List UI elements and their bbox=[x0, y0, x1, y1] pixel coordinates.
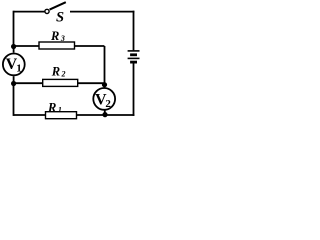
svg-text:R: R bbox=[51, 64, 60, 78]
wire left upper segment bbox=[13, 11, 15, 47]
wire top-left segment bbox=[14, 11, 45, 13]
svg-text:1: 1 bbox=[16, 62, 22, 74]
wire right upper (battery top lead) bbox=[133, 11, 135, 51]
svg-text:2: 2 bbox=[61, 69, 66, 78]
junction D (R2 tap on left wire) bbox=[11, 81, 16, 86]
wire R3 right vertical drop bbox=[104, 46, 106, 85]
wire bottom-left lead to R1 bbox=[14, 114, 46, 116]
wire R1 right lead bbox=[77, 114, 106, 116]
resistor R3 bbox=[39, 42, 75, 49]
svg-text:S: S bbox=[56, 9, 64, 25]
wire R2 right lead bbox=[78, 82, 105, 84]
voltmeter V1 bbox=[3, 47, 25, 84]
junction F (V2 bottom node) bbox=[102, 112, 107, 117]
battery bbox=[128, 51, 140, 62]
wire R2 left lead bbox=[14, 82, 43, 84]
switch S bbox=[45, 2, 66, 13]
wire R3 left lead bbox=[14, 45, 40, 47]
wire left lower segment bbox=[13, 84, 15, 116]
resistor R1 bbox=[46, 112, 77, 119]
voltmeter V2 bbox=[93, 85, 115, 115]
svg-text:R: R bbox=[50, 29, 59, 43]
wire R3 right lead bbox=[75, 45, 105, 47]
junction B (R3 tap on left wire) bbox=[11, 44, 16, 49]
svg-text:2: 2 bbox=[105, 98, 111, 110]
resistor R2 bbox=[43, 79, 78, 86]
wire bottom-right segment bbox=[105, 114, 134, 116]
wire right lower (battery bottom lead) bbox=[133, 64, 135, 116]
wire top-right segment bbox=[70, 11, 134, 13]
junction C (V2 top node) bbox=[102, 82, 107, 87]
